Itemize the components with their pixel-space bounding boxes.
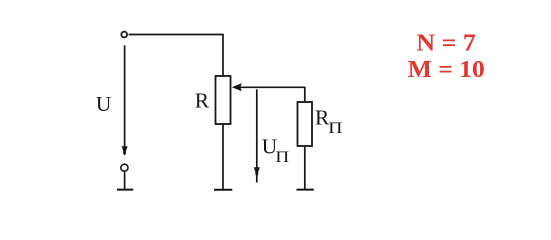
svg-text:П: П: [328, 119, 342, 137]
wire left vertical (U arrow shaft): [124, 45, 126, 152]
voltage arrow U_p shaft: [256, 89, 258, 182]
arrowhead U (points down): [122, 146, 128, 156]
svg-text:R: R: [195, 88, 210, 112]
wire right vertical down to R: [222, 34, 224, 77]
terminal circle top (source terminal): [121, 32, 127, 38]
wiper arrow line of potentiometer: [239, 87, 305, 102]
wire below R: [222, 124, 224, 189]
wiper arrowhead (points left into R): [232, 83, 242, 91]
svg-text:M = 10: M = 10: [408, 56, 485, 83]
terminal bar bottom-left: [117, 189, 133, 191]
terminal circle bottom (source terminal): [121, 164, 128, 171]
svg-text:N = 7: N = 7: [416, 29, 476, 56]
wire below Rp: [304, 146, 306, 189]
terminal bar below R: [214, 189, 232, 191]
svg-text:U: U: [96, 92, 111, 116]
wire stub below bottom circle: [124, 172, 126, 189]
terminal bar below Rp: [297, 189, 314, 191]
wire top horizontal: [129, 34, 223, 36]
resistor Rp body: [298, 102, 313, 146]
svg-text:П: П: [275, 148, 289, 166]
potentiometer R body: [216, 76, 231, 124]
arrowhead U_p (points down): [254, 167, 260, 177]
